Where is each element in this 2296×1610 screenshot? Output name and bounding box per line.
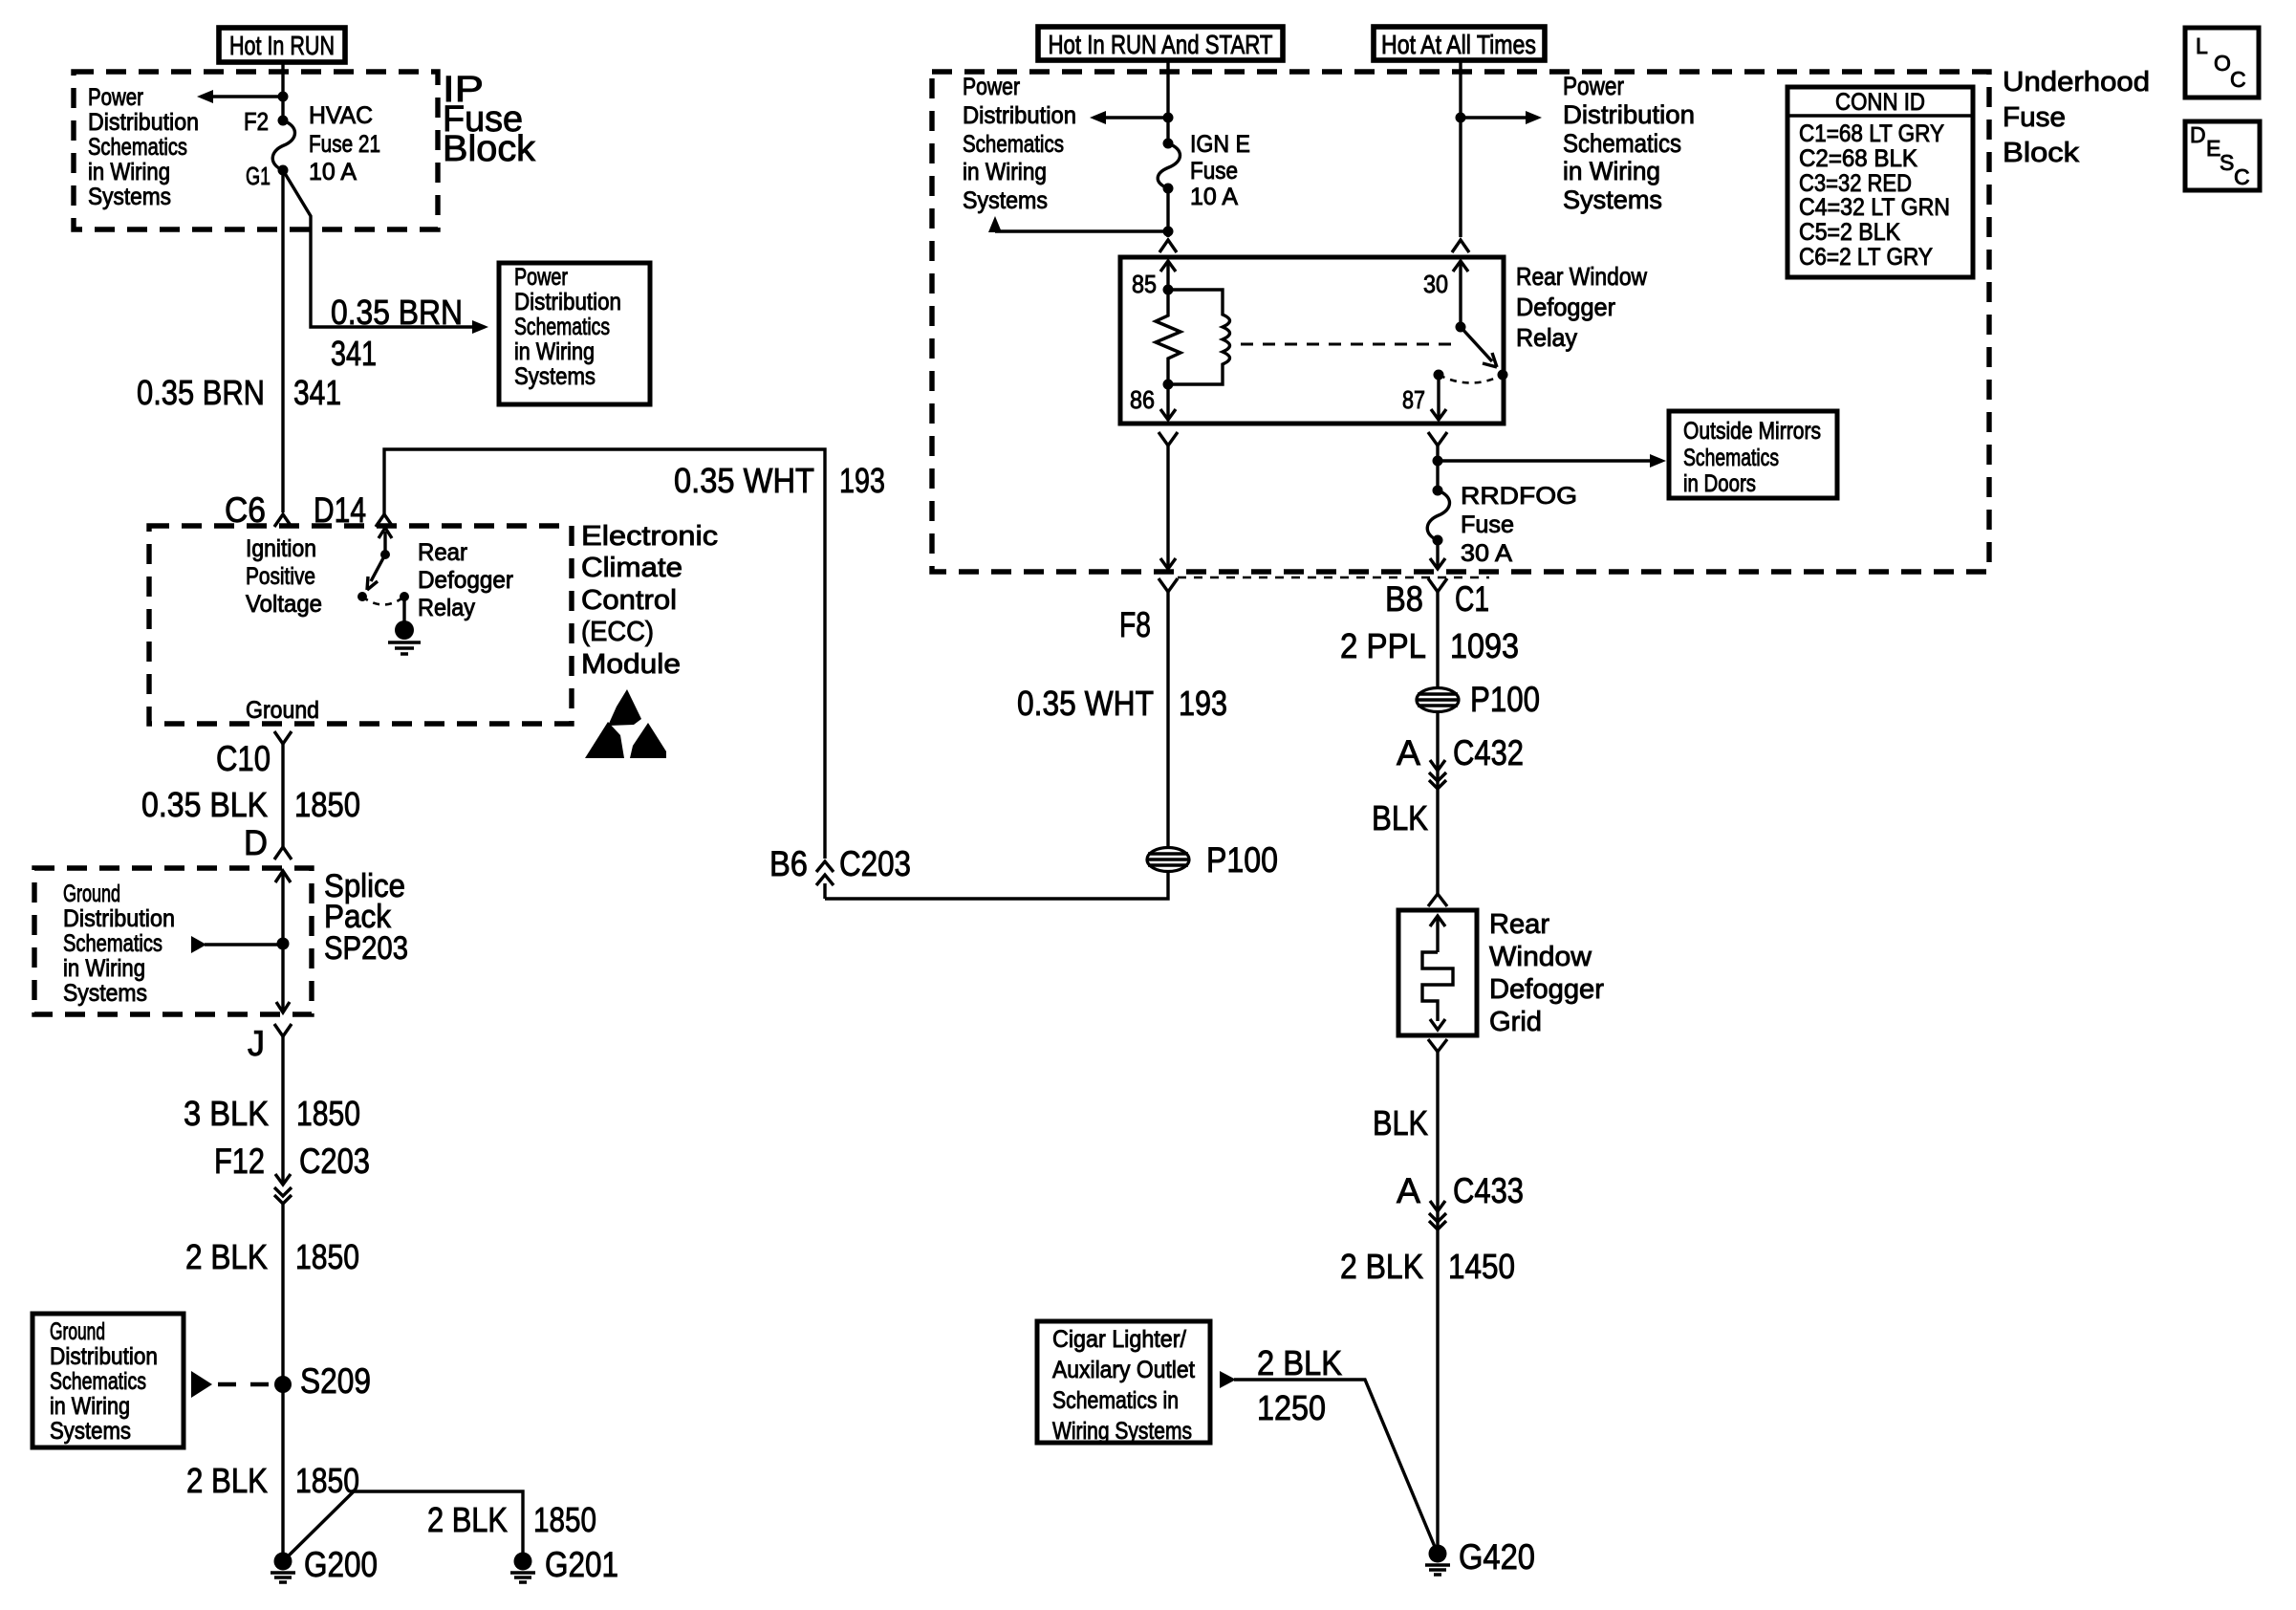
svg-text:C5=2 BLK: C5=2 BLK — [1799, 219, 1900, 246]
svg-text:86: 86 — [1130, 385, 1155, 414]
svg-text:1250: 1250 — [1257, 1388, 1326, 1427]
arrow to power distribution (right) — [1461, 111, 1542, 124]
svg-text:C1: C1 — [1455, 579, 1489, 619]
svg-text:Systems: Systems — [50, 1418, 131, 1445]
connector at relay pin 30 — [1452, 240, 1469, 252]
connector C10 — [216, 731, 292, 778]
svg-text:Defogger: Defogger — [1489, 974, 1604, 1005]
svg-text:1450: 1450 — [1448, 1247, 1515, 1286]
svg-text:G1: G1 — [246, 162, 271, 190]
svg-text:Schematics: Schematics — [50, 1368, 146, 1395]
svg-text:Distribution: Distribution — [514, 289, 621, 315]
svg-text:2 BLK: 2 BLK — [427, 1500, 508, 1539]
connector C432 pin A — [1397, 733, 1524, 789]
svg-text:Schematics: Schematics — [63, 930, 162, 957]
svg-text:Block: Block — [443, 129, 536, 169]
text Ignition Positive Voltage — [246, 535, 322, 618]
svg-text:in Wiring: in Wiring — [1563, 157, 1660, 185]
svg-text:Systems: Systems — [63, 980, 147, 1007]
label 2 BLK 1850 (G201) — [427, 1500, 596, 1539]
connector boundary dashed line F8-B8 — [1178, 577, 1489, 578]
label Splice Pack SP203 — [324, 868, 408, 967]
Splice Pack SP203 dashed box — [34, 868, 312, 1014]
svg-text:in Wiring: in Wiring — [50, 1393, 130, 1420]
svg-text:HVAC: HVAC — [309, 102, 373, 129]
connector F12 C203 — [214, 1142, 370, 1204]
label 3 BLK 1850 — [184, 1094, 360, 1133]
wire Hot At All Times to relay pin 30 — [1459, 60, 1462, 237]
svg-text:Grid: Grid — [1489, 1007, 1542, 1037]
wire from Hot In RUN to fuse F2 — [281, 62, 284, 120]
svg-text:B6: B6 — [769, 844, 808, 883]
svg-text:Power: Power — [514, 264, 568, 291]
ground G201 — [510, 1545, 618, 1584]
svg-text:0.35 BRN: 0.35 BRN — [331, 293, 463, 332]
wire into splice pack (arrow up) — [275, 871, 291, 944]
svg-text:C203: C203 — [299, 1142, 370, 1181]
svg-text:Auxilary Outlet: Auxilary Outlet — [1052, 1357, 1195, 1383]
rear window defogger grid element — [1398, 910, 1477, 1035]
svg-text:Distribution: Distribution — [63, 905, 175, 932]
label 0.35 WHT 193 (upper) — [674, 461, 885, 500]
svg-text:Wiring Systems: Wiring Systems — [1052, 1418, 1192, 1445]
svg-text:Systems: Systems — [963, 187, 1048, 214]
svg-text:Fuse 21: Fuse 21 — [309, 131, 380, 158]
svg-text:Outside Mirrors: Outside Mirrors — [1683, 418, 1821, 445]
svg-text:Relay: Relay — [1516, 323, 1577, 352]
svg-text:3 BLK: 3 BLK — [184, 1094, 269, 1133]
svg-text:0.35 BRN: 0.35 BRN — [137, 373, 265, 412]
connector D14 — [314, 490, 393, 530]
node junction — [1163, 113, 1174, 123]
svg-text:Distribution: Distribution — [50, 1343, 158, 1370]
svg-text:341: 341 — [331, 334, 377, 373]
svg-text:85: 85 — [1132, 270, 1157, 298]
svg-text:Power: Power — [1563, 72, 1624, 100]
label Electronic Climate Control (ECC) Module — [581, 521, 718, 680]
grommet P100 (F8 column) — [1147, 840, 1278, 880]
svg-text:1850: 1850 — [295, 1237, 359, 1276]
reference box Power Distribution Schematics — [499, 263, 650, 404]
label Rear Window Defogger Relay — [1516, 262, 1647, 352]
node junction — [278, 92, 289, 102]
wire J to F12 — [281, 1036, 284, 1174]
svg-text:A: A — [1397, 733, 1420, 772]
svg-text:10 A: 10 A — [309, 159, 357, 185]
svg-text:G200: G200 — [304, 1545, 378, 1584]
svg-text:30: 30 — [1423, 270, 1448, 298]
node Hot In RUN And START tag — [1038, 27, 1283, 60]
fuse RRDFOG 30A — [1427, 483, 1577, 567]
svg-text:in Wiring: in Wiring — [963, 159, 1047, 185]
fuse HVAC Fuse 21 10A — [244, 102, 380, 190]
svg-text:Hot In RUN: Hot In RUN — [229, 31, 335, 60]
wire relay 87 to RRDFOG fuse — [1428, 432, 1447, 490]
svg-text:Schematics: Schematics — [88, 134, 187, 161]
wire out of splice pack (arrow down) — [276, 944, 290, 1012]
ground G200 — [271, 1545, 378, 1584]
connector at grid top — [1428, 894, 1447, 906]
svg-text:(ECC): (ECC) — [581, 617, 654, 647]
text Ground Distribution Schematics (upper) — [63, 881, 175, 1007]
svg-text:Hot At All Times: Hot At All Times — [1381, 30, 1536, 59]
ECC module dashed box — [149, 526, 572, 724]
svg-text:C3=32 RED: C3=32 RED — [1799, 170, 1912, 197]
arrow to power distribution (left) — [1090, 111, 1168, 124]
svg-text:0.35 WHT: 0.35 WHT — [674, 461, 814, 500]
svg-text:Control: Control — [581, 585, 677, 616]
svg-text:A: A — [1397, 1171, 1420, 1210]
CONN ID table — [1787, 87, 1973, 277]
label 0.35 BRN 341 (main wire) — [137, 373, 341, 412]
DESC box — [2185, 121, 2260, 190]
LOC box — [2185, 28, 2259, 98]
reference box Ground Distribution Schematics — [32, 1314, 184, 1447]
arrow to power distribution schematics — [197, 90, 283, 103]
svg-text:IGN E: IGN E — [1190, 131, 1250, 158]
svg-text:C6=2 LT GRY: C6=2 LT GRY — [1799, 244, 1933, 271]
svg-text:Ground: Ground — [63, 881, 120, 907]
relay Rear Window Defogger Relay box — [1120, 257, 1504, 424]
node Hot In RUN tag — [219, 28, 345, 62]
svg-text:1850: 1850 — [533, 1500, 596, 1539]
svg-text:Fuse: Fuse — [1190, 158, 1238, 185]
svg-text:B8: B8 — [1385, 579, 1423, 619]
arrow to outside mirrors schematics — [1438, 454, 1666, 468]
node junction — [1163, 227, 1174, 237]
fuse IGN E 10A — [1158, 131, 1250, 210]
relay pin 30 switch — [1423, 261, 1508, 383]
svg-text:Systems: Systems — [1563, 185, 1662, 214]
svg-text:Climate: Climate — [581, 553, 682, 583]
ESD warning symbol — [585, 689, 666, 758]
reference box Cigar Lighter Auxilary Outlet — [1037, 1321, 1210, 1445]
svg-text:C433: C433 — [1453, 1171, 1524, 1210]
svg-text:341: 341 — [293, 373, 341, 412]
svg-text:Ground: Ground — [246, 697, 319, 724]
connector at grid bottom — [1428, 1039, 1447, 1052]
wire fuse to relay pin 85 — [1166, 188, 1169, 237]
svg-text:G420: G420 — [1459, 1537, 1535, 1577]
svg-text:J: J — [248, 1024, 265, 1063]
svg-text:Electronic: Electronic — [581, 521, 718, 552]
svg-text:Systems: Systems — [514, 363, 596, 390]
svg-text:2 BLK: 2 BLK — [1257, 1343, 1342, 1382]
wire relay 86 to F8 — [1159, 432, 1178, 569]
connector C433 pin A — [1397, 1171, 1524, 1229]
svg-text:CONN ID: CONN ID — [1835, 89, 1925, 116]
splice S209 reference arrow — [191, 1371, 279, 1398]
svg-text:10 A: 10 A — [1190, 184, 1238, 210]
relay pin 85 — [1132, 261, 1176, 298]
label 2 BLK 1850 — [185, 1237, 359, 1276]
wire branch circuit 341 to power distribution — [283, 170, 488, 334]
svg-text:1850: 1850 — [294, 785, 360, 824]
svg-text:F12: F12 — [214, 1142, 265, 1181]
connector D — [244, 823, 292, 862]
svg-text:G201: G201 — [545, 1545, 618, 1584]
svg-text:Block: Block — [2003, 138, 2080, 168]
svg-text:Schematics: Schematics — [1683, 445, 1779, 471]
relay coil suppression resistor — [1156, 290, 1180, 384]
svg-text:P100: P100 — [1470, 680, 1540, 719]
svg-text:0.35 WHT: 0.35 WHT — [1017, 684, 1154, 723]
relay coil-switch dashed link — [1241, 343, 1455, 346]
wire C10 to D — [281, 744, 284, 847]
svg-text:Distribution: Distribution — [963, 102, 1076, 129]
svg-text:1850: 1850 — [296, 1094, 360, 1133]
wire B8 down to defogger grid — [1436, 592, 1439, 894]
wire cigar lighter ground lead to G420 — [1220, 1371, 1438, 1554]
node splice junction — [277, 938, 290, 950]
svg-text:S209: S209 — [300, 1361, 371, 1401]
wire from ground distribution schematics — [191, 936, 283, 953]
wire grid to G420 — [1436, 1052, 1439, 1554]
svg-text:C1=68 LT GRY: C1=68 LT GRY — [1799, 120, 1944, 147]
splice S209 — [274, 1361, 371, 1401]
svg-text:C: C — [2234, 164, 2250, 189]
svg-text:0.35 BLK: 0.35 BLK — [141, 785, 268, 824]
svg-text:D: D — [2190, 122, 2206, 147]
svg-text:2 PPL: 2 PPL — [1340, 626, 1426, 665]
label 0.35 WHT 193 (F8 column) — [1017, 684, 1227, 723]
svg-text:Schematics: Schematics — [1563, 129, 1681, 158]
IP Fuse Block label — [443, 70, 536, 169]
svg-text:C203: C203 — [839, 844, 911, 883]
wire F8 down and across to C203/B6 — [825, 592, 1168, 899]
reference text Power Distribution (underhood right) — [1563, 72, 1695, 214]
svg-text:Rear Window: Rear Window — [1516, 262, 1647, 291]
svg-text:SP203: SP203 — [324, 930, 408, 967]
svg-text:in Wiring: in Wiring — [514, 338, 595, 365]
svg-text:C4=32 LT GRN: C4=32 LT GRN — [1799, 194, 1950, 221]
svg-text:C2=68 BLK: C2=68 BLK — [1799, 145, 1917, 172]
connector F8 — [1119, 578, 1178, 644]
svg-text:in Doors: in Doors — [1683, 470, 1756, 497]
svg-text:Module: Module — [581, 649, 681, 680]
svg-text:F2: F2 — [244, 107, 269, 136]
svg-text:Fuse: Fuse — [1461, 511, 1514, 538]
wire D14 to C203/B6 (0.35 WHT 193) — [384, 449, 825, 859]
svg-text:Schematics: Schematics — [514, 314, 610, 340]
svg-text:BLK: BLK — [1372, 798, 1428, 838]
svg-text:Distribution: Distribution — [1563, 100, 1695, 129]
svg-text:Positive: Positive — [246, 563, 315, 590]
svg-text:Defogger: Defogger — [1516, 293, 1615, 321]
svg-text:Defogger: Defogger — [418, 567, 513, 594]
relay coil — [1168, 290, 1230, 384]
label Rear Window Defogger Grid — [1489, 909, 1604, 1037]
wire RRDFOG to B8 — [1430, 540, 1445, 569]
wire Hot In RUN And START to IGN E fuse — [1166, 60, 1169, 143]
svg-text:D: D — [244, 823, 268, 862]
relay pin 87 — [1402, 375, 1446, 420]
svg-text:1093: 1093 — [1450, 626, 1519, 665]
label 2 BLK 1850 — [186, 1461, 359, 1500]
svg-text:C: C — [2230, 67, 2246, 92]
svg-text:Relay: Relay — [418, 595, 475, 621]
Underhood Fuse Block dashed box — [932, 72, 1989, 572]
connector at relay pin 85 — [1159, 240, 1177, 252]
reference text Power Distribution (IP box) — [88, 84, 199, 210]
svg-text:193: 193 — [839, 461, 885, 500]
reference box Outside Mirrors Schematics in Doors — [1669, 411, 1837, 498]
svg-text:Underhood: Underhood — [2003, 67, 2150, 98]
svg-text:Voltage: Voltage — [246, 591, 322, 618]
svg-text:Hot In RUN And START: Hot In RUN And START — [1049, 30, 1273, 59]
svg-text:Ground: Ground — [50, 1318, 105, 1345]
connector B8 C1 — [1385, 578, 1489, 619]
node junction — [1456, 113, 1466, 123]
label 2 PPL 1093 — [1340, 626, 1519, 665]
svg-text:S: S — [2220, 150, 2234, 175]
ECC rear defogger relay switch — [357, 528, 513, 621]
svg-text:C10: C10 — [216, 739, 271, 778]
grommet P100 (B8 column) — [1417, 680, 1540, 719]
svg-text:P100: P100 — [1206, 840, 1278, 880]
svg-text:RRDFOG: RRDFOG — [1461, 483, 1577, 510]
svg-text:in Wiring: in Wiring — [63, 955, 145, 982]
svg-text:C432: C432 — [1453, 733, 1524, 772]
svg-text:Systems: Systems — [88, 184, 171, 210]
label 2 BLK 1250 — [1257, 1343, 1342, 1427]
svg-text:Cigar Lighter/: Cigar Lighter/ — [1052, 1326, 1186, 1353]
svg-text:Distribution: Distribution — [88, 109, 199, 136]
Underhood Fuse Block label — [2003, 67, 2150, 168]
wire branch to G201 — [283, 1491, 523, 1561]
svg-text:87: 87 — [1402, 385, 1425, 414]
svg-text:BLK: BLK — [1373, 1103, 1428, 1142]
svg-text:F8: F8 — [1119, 605, 1151, 644]
svg-text:Schematics in: Schematics in — [1052, 1387, 1179, 1414]
svg-text:Power: Power — [88, 84, 143, 111]
svg-text:Window: Window — [1489, 942, 1592, 972]
reference text Power Distribution (underhood left) — [963, 74, 1076, 214]
label 0.35 BLK 1850 — [141, 785, 360, 824]
svg-text:Rear: Rear — [1489, 909, 1549, 940]
svg-text:in Wiring: in Wiring — [88, 159, 170, 185]
svg-text:L: L — [2196, 33, 2208, 58]
label 2 BLK 1450 — [1340, 1247, 1515, 1286]
connector C6 — [225, 490, 292, 530]
connector C203 pin B6 — [769, 844, 911, 899]
relay pin 86 — [1130, 380, 1176, 421]
svg-text:30 A: 30 A — [1461, 540, 1512, 567]
svg-text:Schematics: Schematics — [963, 131, 1064, 158]
wire F12 to G200 — [281, 1203, 284, 1561]
connector J — [248, 1024, 292, 1063]
svg-text:2 BLK: 2 BLK — [185, 1237, 268, 1276]
svg-text:2 BLK: 2 BLK — [186, 1461, 268, 1500]
ECC internal ground symbol — [388, 597, 421, 654]
node Hot At All Times tag — [1374, 27, 1545, 60]
svg-text:2 BLK: 2 BLK — [1340, 1247, 1423, 1286]
arrow up to power distribution text — [988, 216, 1168, 232]
svg-text:O: O — [2214, 51, 2231, 76]
label 0.35 BRN 341 (branch) — [331, 293, 463, 373]
svg-text:193: 193 — [1179, 684, 1227, 723]
svg-text:Power: Power — [963, 74, 1020, 100]
svg-text:Fuse: Fuse — [2003, 102, 2066, 133]
svg-text:Rear: Rear — [418, 539, 467, 566]
svg-text:Ignition: Ignition — [246, 535, 316, 562]
ground G420 — [1425, 1537, 1535, 1577]
IP Fuse Block dashed box — [74, 72, 438, 229]
wire G1 down to C6 — [281, 170, 284, 512]
